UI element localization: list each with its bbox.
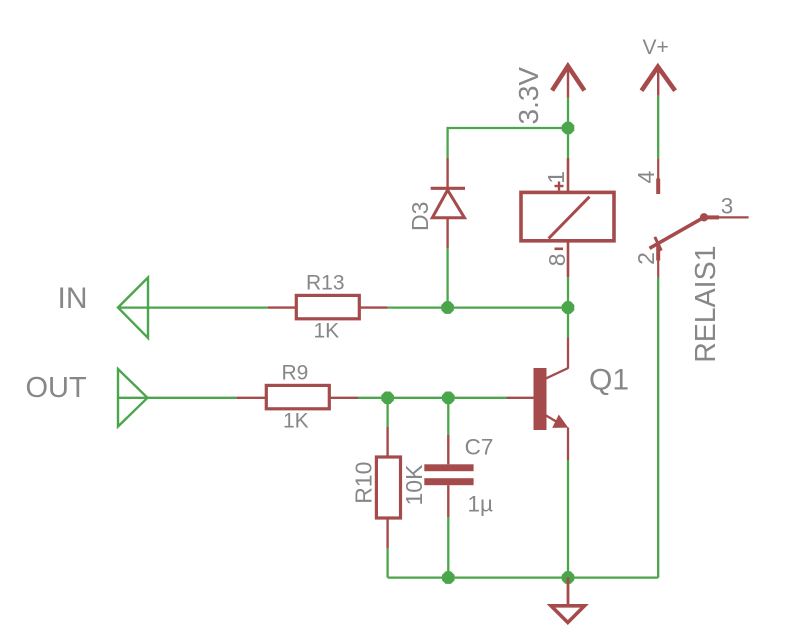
pin label -8 [544, 249, 570, 266]
switch RELAIS1 [650, 158, 749, 277]
svg-text:1K: 1K [314, 320, 340, 343]
supply V+ symbol [642, 67, 676, 96]
junction node [381, 392, 394, 405]
svg-text:OUT: OUT [26, 372, 88, 404]
svg-text:R10: R10 [351, 462, 377, 504]
wire [567, 460, 569, 578]
diode D3 [431, 158, 465, 248]
capacitor C7 [424, 435, 473, 517]
svg-text:R9: R9 [282, 362, 309, 385]
wire [386, 548, 388, 578]
svg-text:2: 2 [633, 252, 659, 265]
svg-text:V+: V+ [643, 36, 669, 59]
wire [447, 398, 449, 435]
resistor R9 [236, 385, 358, 408]
wire [657, 278, 659, 578]
wire [386, 398, 388, 427]
ground [551, 578, 585, 623]
wire [118, 306, 269, 308]
pin label +1 [543, 171, 569, 190]
junction node [562, 571, 575, 584]
svg-text:1K: 1K [283, 410, 309, 433]
svg-text:1: 1 [543, 171, 569, 184]
svg-text:4: 4 [633, 171, 659, 184]
wire [118, 397, 236, 399]
svg-text:R13: R13 [306, 272, 345, 295]
pin OUT port symbol [118, 369, 148, 427]
svg-text:Q1: Q1 [589, 364, 629, 397]
wire [567, 98, 569, 158]
svg-text:10K: 10K [401, 464, 427, 506]
svg-text:8: 8 [544, 254, 570, 267]
svg-text:IN: IN [58, 282, 88, 315]
relay coil K1 [521, 158, 614, 277]
junction node [562, 301, 575, 314]
svg-text:1µ: 1µ [468, 492, 494, 517]
transistor Q1 [507, 338, 569, 461]
wire [657, 96, 659, 159]
junction node [442, 392, 455, 405]
svg-text:D3: D3 [407, 202, 433, 231]
wire [388, 576, 659, 578]
wire [447, 517, 449, 578]
wire [446, 248, 448, 308]
svg-text:RELAIS1: RELAIS1 [690, 246, 722, 363]
junction node [441, 301, 454, 314]
svg-text:3.3V: 3.3V [513, 67, 544, 125]
wire [567, 277, 569, 338]
supply 3.3V symbol [552, 66, 584, 98]
wire [448, 128, 568, 158]
junction node [442, 571, 455, 584]
resistor R10 [376, 427, 400, 548]
wire [388, 306, 568, 308]
pin IN port symbol [118, 278, 148, 339]
svg-text:C7: C7 [465, 435, 494, 460]
junction node [562, 122, 575, 135]
svg-text:3: 3 [721, 193, 734, 218]
resistor R13 [268, 295, 388, 318]
wire [358, 397, 507, 399]
